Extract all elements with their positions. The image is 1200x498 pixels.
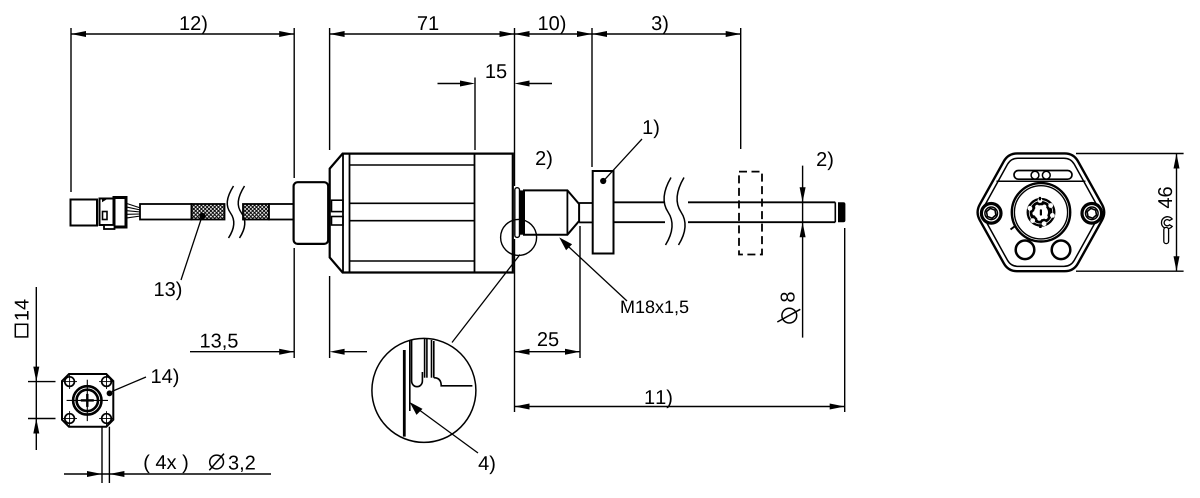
dimension 25 line (515, 351, 581, 353)
dimension 13,5 line (190, 351, 294, 353)
flange screw hole 1 (65, 377, 75, 387)
dimension 3) label (652, 16, 668, 35)
extension line x=71 (70, 28, 72, 192)
extension line x=329.6 lower (329, 276, 331, 358)
label 2) left (536, 151, 552, 170)
label 13) leader (181, 218, 202, 280)
connector plug latch notch (103, 212, 108, 220)
hex slot hole right (1042, 171, 1050, 179)
thread bushing body (524, 190, 579, 234)
detail view circle (372, 338, 476, 442)
thread bushing face line (566, 190, 568, 234)
label 14) leader (112, 377, 146, 392)
body front plate line 1 (342, 154, 344, 273)
body inner top line (350, 164, 475, 166)
dia3,2 symbol (210, 455, 224, 469)
dimension 13,5 label (201, 334, 238, 351)
hex flange outer outline (978, 153, 1105, 271)
hex bottom hole left (1016, 241, 1035, 260)
cable clamp upper tab (332, 200, 344, 211)
detail body lines (424, 339, 426, 378)
label (4x) (144, 455, 187, 474)
hex screw right (1082, 204, 1102, 224)
cable jacket right section (269, 204, 294, 220)
extension line x=514.5 (514, 28, 516, 186)
sq14 extension lines (28, 381, 56, 383)
detail marker circle (501, 219, 537, 255)
hex flange inner outline (983, 158, 1100, 266)
label 14) (152, 369, 178, 388)
extension line x=844.7 (844, 228, 846, 412)
dimension 25 label (538, 332, 558, 346)
detail leader line (452, 255, 520, 343)
dimension 46 label (1158, 187, 1172, 208)
dimension 11) label (646, 390, 672, 409)
label 3,2 (229, 456, 255, 473)
extension line x=580 (579, 226, 581, 358)
hex connector insert ring (1028, 199, 1055, 226)
dimension sq14 label (15, 299, 29, 319)
dimension 71 label (418, 16, 438, 30)
mounting collar (294, 182, 329, 244)
dimension 3) line (592, 33, 741, 35)
label M18x1,5 (621, 300, 688, 315)
hex slot hole left (1031, 171, 1039, 179)
label 1) leader (605, 139, 642, 179)
dimension 11) line (515, 406, 845, 408)
dimension 12) label (181, 16, 207, 35)
detail shoulder (434, 378, 473, 386)
flange center outer ring (73, 386, 101, 414)
flange center inner ring (77, 390, 98, 411)
detail washer left line (409, 341, 411, 411)
label M18x1,5 leader (563, 242, 627, 302)
dimension 10) label (539, 16, 565, 35)
hex face chord line (997, 180, 1086, 182)
dimension 10) line (515, 33, 593, 35)
dimension dia8 line (802, 166, 804, 338)
flange screw hole 4 (102, 414, 112, 424)
body inner bottom line (350, 260, 475, 262)
flange screw hole 3 (65, 414, 75, 424)
hex top slot (1014, 171, 1072, 180)
body front plate line 2 (349, 154, 351, 273)
extension line x=329.6 upper (329, 28, 331, 150)
dimension sq14 line (35, 287, 37, 450)
label 1) (644, 120, 659, 139)
connector plug mid box (100, 199, 115, 226)
dia8 diameter symbol (782, 308, 797, 323)
square flange outline (62, 374, 113, 427)
connector plug rear box (114, 198, 126, 228)
hex extension lines (1076, 153, 1184, 155)
sq14 square symbol (15, 324, 27, 337)
label 13) (155, 282, 181, 301)
wrench size symbol (1161, 217, 1172, 229)
detail groove U shape (412, 340, 423, 387)
extension line x=740.7 (740, 28, 742, 149)
extension line x=592 (591, 28, 593, 167)
cable clamp lower tab (332, 217, 344, 226)
washer black band (520, 190, 524, 234)
extension line x=475 (474, 78, 476, 151)
hex connector pin insert (1032, 203, 1050, 221)
dimension 15 label (486, 64, 506, 78)
connector wires (127, 204, 141, 209)
body outline (330, 154, 513, 273)
dimension 15 line (438, 83, 463, 85)
detail rod edge thick line (403, 350, 406, 437)
label 2) right (817, 152, 833, 171)
connector plug bottom tab (104, 225, 115, 229)
dimension 12) line (71, 33, 294, 35)
hex connector outer circle 2 (1014, 186, 1067, 239)
body end cap line (474, 154, 476, 273)
washer ring outline (515, 188, 520, 238)
flange marker dot 14) (107, 390, 113, 396)
cable braid section 2 (243, 204, 269, 220)
dimension 3,2 line (64, 473, 271, 475)
hex connector outer circle (1012, 183, 1070, 241)
cable break lines (227, 186, 234, 238)
dimension dia8 label (781, 292, 795, 301)
cable jacket left section (140, 204, 192, 220)
hole extension lines (101, 427, 103, 483)
extension line x=294.2 upper (293, 28, 295, 178)
body mid lower line (350, 220, 475, 222)
body mid upper line (350, 202, 475, 204)
flange screw hole 2 (102, 377, 112, 387)
flange center crosshair (67, 399, 108, 401)
dimension 71 line (330, 33, 515, 35)
rod end line (834, 202, 836, 222)
hex bottom hole right (1052, 241, 1071, 260)
extension line x=294.2 lower (293, 248, 295, 358)
rod segment left (614, 201, 666, 203)
magnet block 1) (593, 171, 614, 254)
cable marker dot 13) (199, 213, 205, 219)
label 4) arrow (410, 402, 423, 415)
cable braid section 1 (192, 204, 225, 220)
rod segment right (688, 201, 835, 203)
hex connector ring tick (1011, 227, 1015, 230)
rod end black cap (838, 202, 845, 222)
rod neck (579, 202, 593, 204)
phantom magnet block dashed (739, 172, 762, 255)
connector plug top triangle (102, 198, 109, 202)
dimension 46 line (1176, 154, 1178, 272)
connector plug front box (71, 200, 98, 226)
label 4) (479, 456, 495, 475)
magnet marker dot (600, 178, 606, 184)
rod break lines (664, 178, 672, 246)
hex screw left (981, 204, 1001, 224)
